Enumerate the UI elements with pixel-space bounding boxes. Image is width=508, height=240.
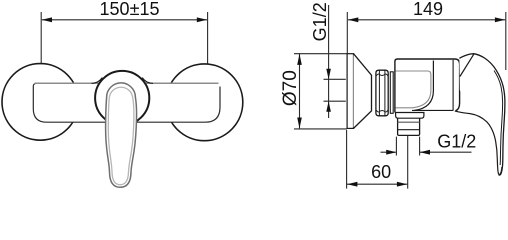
G1/2 tick bottom [324,100,346,102]
pipe ring 1 [398,121,420,123]
dim 150±15 line [42,19,207,21]
dim 149 extension right [505,12,507,70]
arrow down [297,118,302,129]
bar top edge [35,82,219,84]
blade inner highlight [494,71,503,166]
bar outline sides+bottom [33,83,220,122]
left circle [2,64,79,141]
ring washer [390,72,393,114]
inner cover inner [396,71,431,108]
dim 149 extension left [346,12,348,54]
arrow up [297,54,302,65]
arrow left [42,17,52,22]
cavity bottom line [412,109,453,111]
Ø70 ext top [294,53,347,55]
G1/2 leader vertical line [328,5,330,118]
arrow right [495,17,505,22]
blade top inner slope [460,54,474,76]
svg-text:149: 149 [413,0,443,19]
fillet dome right [142,78,153,84]
dim 149 line [348,19,505,21]
right circle [166,64,243,141]
G1/2 bottom dimension [381,151,396,153]
G1/2 tick top [324,78,346,80]
handle inner line [108,87,134,184]
arrow right [197,17,207,22]
ext line pipe left edge [395,137,397,156]
hub bottom curve [455,111,502,174]
hex nut [376,70,388,116]
svg-text:Ø70: Ø70 [280,70,301,106]
svg-text:60: 60 [371,162,391,182]
arrow down to top tick [326,69,331,79]
dim 60 line [347,183,407,185]
dome [95,71,149,125]
arrow left [347,182,357,187]
body outline [395,59,460,113]
ext line pipe right edge [419,137,421,156]
handle blade fill [459,54,505,175]
cone [354,54,372,129]
dim Ø70 line [299,54,301,128]
inner cover outer [414,61,433,111]
nut facet lines [378,70,380,115]
bar body fill [33,83,220,122]
pipe ring 2 [398,129,420,131]
svg-text:150±15: 150±15 [100,0,160,19]
arrow right [397,182,407,187]
cone escutcheon flange [347,54,353,129]
ext line wall [346,130,348,189]
hub front vertical [452,60,454,111]
arrow up to bottom tick [326,101,331,111]
dim 150±15 extension line right [207,12,209,64]
outlet pipe [398,118,420,135]
dim 150±15 extension line left [40,12,42,63]
ext line outlet center [407,136,409,189]
outlet collar [396,113,424,119]
blade outline [459,54,505,175]
body side fill [395,59,498,172]
svg-text:G1/2: G1/2 [310,2,330,41]
handle lever outer [106,83,137,187]
fillet dome left [92,78,103,84]
arrow left [348,17,358,22]
svg-text:G1/2: G1/2 [437,132,476,152]
Ø70 ext bottom [294,128,347,130]
nut chamfer arcs [376,74,388,76]
